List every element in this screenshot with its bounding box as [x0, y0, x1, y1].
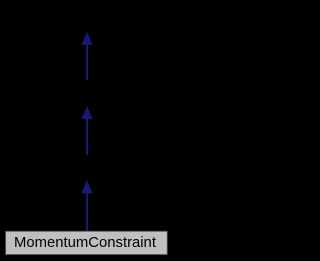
inheritance arrow 2 (middle) [81, 106, 92, 155]
inheritance arrow 1 (top, to invisible base class node) [81, 32, 92, 81]
node box MomentumConstraint [6, 231, 168, 254]
inheritance arrow 3 (bottom, from MomentumConstraint node) [81, 180, 92, 232]
svg-text:MomentumConstraint: MomentumConstraint [14, 235, 157, 251]
